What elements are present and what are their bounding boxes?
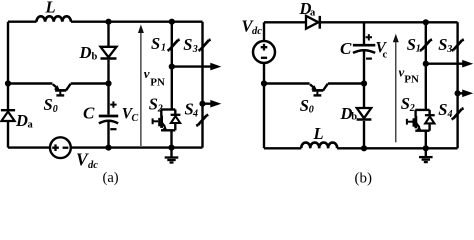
wire: circuit (a) bottom rail bbox=[8, 146, 203, 148]
svg-text:4: 4 bbox=[192, 109, 198, 120]
wire: C leg bottom (a) bbox=[107, 122, 109, 148]
svg-text:(a): (a) bbox=[103, 170, 119, 186]
wire: inverter leg 1 (b) bbox=[425, 22, 427, 110]
ground (a) bbox=[165, 148, 179, 163]
svg-text:S: S bbox=[438, 100, 447, 119]
svg-text:(b): (b) bbox=[355, 170, 373, 186]
svg-text:a: a bbox=[28, 119, 34, 130]
svg-text:b: b bbox=[92, 52, 98, 63]
wire: inverter leg 1 (a) bbox=[171, 22, 173, 110]
output arrow phase 1 (a) bbox=[172, 63, 222, 71]
svg-text:L: L bbox=[313, 124, 324, 143]
wire: S2 leg to bottom rail (b) bbox=[425, 131, 427, 149]
wire: circuit (a) left vertical lower (Da to bottom rail) bbox=[7, 121, 9, 148]
diode Da (b) bbox=[306, 16, 320, 29]
node: bottom rail / C leg (a) bbox=[105, 145, 111, 151]
wire: C leg middle (b) bbox=[363, 51, 365, 108]
diode Da (a) bbox=[1, 110, 15, 121]
svg-text:3: 3 bbox=[446, 44, 452, 55]
svg-text:a: a bbox=[310, 8, 316, 19]
wire: circuit (b) top rail right of Da bbox=[321, 21, 458, 23]
node: leg1 phase output (b) bbox=[423, 61, 429, 67]
node: bottom rail / ground (a) bbox=[168, 145, 174, 151]
wire: S0 branch left (a) bbox=[8, 82, 53, 84]
switch S3 blade (a) bbox=[199, 40, 211, 51]
svg-text:S: S bbox=[183, 35, 192, 54]
svg-text:S: S bbox=[300, 96, 309, 115]
switch S1 blade (b) bbox=[420, 40, 432, 51]
wire: Db leg top (a) bbox=[107, 22, 109, 47]
voltage arrow vPN (b) bbox=[393, 34, 399, 143]
output arrow phase 1 (b) bbox=[426, 60, 473, 68]
voltage source Vdc (b) bbox=[253, 41, 275, 63]
switch S4 blade (b) bbox=[452, 108, 464, 119]
svg-text:2: 2 bbox=[409, 103, 415, 114]
wire: C leg top (b) bbox=[363, 22, 365, 44]
svg-text:S: S bbox=[401, 94, 410, 113]
svg-text:D: D bbox=[15, 111, 28, 130]
wire: inverter leg 2 (b) bbox=[456, 22, 458, 148]
junction dots (b) bbox=[261, 19, 461, 151]
svg-text:C: C bbox=[83, 104, 95, 123]
labels circuit (b) bbox=[242, 0, 453, 186]
svg-text:1: 1 bbox=[416, 44, 421, 55]
svg-text:0: 0 bbox=[53, 104, 58, 115]
diode Db (b) bbox=[357, 108, 372, 120]
junction dots (a) bbox=[5, 19, 206, 151]
wire: circuit (b) bottom rail left segment bbox=[264, 147, 301, 149]
node: top rail / leg1 (b) bbox=[423, 19, 429, 25]
node: top rail / leg1 (a) bbox=[169, 19, 175, 25]
inductor L (b) bbox=[301, 143, 337, 149]
wire: inverter leg 2 (a) bbox=[201, 22, 203, 148]
svg-text:dc: dc bbox=[252, 26, 262, 37]
wire: circuit (b) top rail left of Da bbox=[264, 21, 306, 23]
voltage source Vdc (a) bbox=[50, 137, 71, 158]
svg-text:c: c bbox=[383, 50, 388, 61]
IGBT with diode S2 (b) bbox=[407, 110, 435, 131]
wire: circuit (a) top rail left segment bbox=[8, 21, 37, 23]
node: leg2 phase output (a) bbox=[199, 101, 205, 107]
node: left vertical / S0 branch (a) bbox=[5, 80, 11, 86]
wire: S2 leg to bottom rail (a) bbox=[170, 130, 172, 147]
svg-text:S: S bbox=[151, 34, 160, 53]
switch S0 (a) bbox=[53, 84, 71, 96]
svg-text:4: 4 bbox=[447, 109, 453, 120]
svg-text:PN: PN bbox=[150, 76, 165, 88]
svg-text:v: v bbox=[144, 66, 150, 81]
wire: circuit (b) left vertical below Vdc source bbox=[263, 63, 265, 148]
wire: circuit (b) left vertical above Vdc source bbox=[263, 22, 265, 42]
svg-text:dc: dc bbox=[88, 160, 98, 171]
svg-text:0: 0 bbox=[309, 105, 314, 116]
output arrow phase 2 (a) bbox=[203, 100, 222, 108]
svg-text:S: S bbox=[149, 95, 158, 114]
svg-text:PN: PN bbox=[404, 74, 419, 86]
capacitor C (a) bbox=[99, 101, 118, 129]
wire: S0 branch right (b) bbox=[328, 82, 364, 84]
svg-text:S: S bbox=[438, 35, 447, 54]
node: bottom rail / Db leg (b) bbox=[361, 145, 367, 151]
switch S4 blade (a) bbox=[196, 115, 208, 126]
wire: S0 branch left (b) bbox=[264, 82, 310, 84]
svg-text:S: S bbox=[44, 95, 53, 114]
svg-text:1: 1 bbox=[161, 43, 166, 54]
node: left vertical / S0 branch (b) bbox=[261, 80, 267, 86]
capacitor C (b) bbox=[353, 34, 375, 59]
node: leg1 phase output (a) bbox=[169, 64, 175, 70]
svg-text:C: C bbox=[132, 113, 139, 124]
wire: Db leg bottom (b) bbox=[363, 121, 365, 148]
svg-text:b: b bbox=[351, 112, 357, 123]
svg-text:L: L bbox=[45, 0, 56, 17]
svg-text:D: D bbox=[79, 43, 92, 62]
wire: circuit (b) bottom rail right segment bbox=[337, 147, 458, 149]
svg-text:2: 2 bbox=[157, 104, 163, 115]
wire: S0 branch right (a) bbox=[71, 82, 109, 84]
node: bottom rail / ground (b) bbox=[423, 145, 429, 151]
wire: circuit (a) top rail right segment bbox=[71, 21, 203, 23]
diode Db (a) bbox=[101, 47, 117, 59]
node: Db leg / S0 branch (a) bbox=[105, 80, 111, 86]
wire: circuit (a) left vertical upper (to diode Da) bbox=[7, 22, 9, 109]
inductor L (a) bbox=[36, 16, 70, 21]
node: leg2 phase output (b) bbox=[455, 90, 461, 96]
ground (b) bbox=[419, 148, 433, 162]
switch S1 blade (a) bbox=[168, 40, 180, 51]
IGBT with diode S2 (a) bbox=[153, 110, 181, 131]
output arrow phase 2 (b) bbox=[458, 90, 474, 98]
switch S0 (b) bbox=[310, 84, 328, 96]
node: C leg / S0 branch (b) bbox=[361, 80, 367, 86]
node: top rail / Db leg (a) bbox=[105, 19, 111, 25]
labels circuit (a) bbox=[15, 0, 198, 186]
svg-text:S: S bbox=[407, 35, 416, 54]
switch S3 blade (b) bbox=[452, 40, 464, 51]
svg-text:3: 3 bbox=[192, 44, 198, 55]
wire: Db leg middle (a) bbox=[107, 60, 109, 115]
voltage arrow vPN (a) bbox=[138, 25, 144, 147]
svg-text:C: C bbox=[340, 39, 352, 58]
